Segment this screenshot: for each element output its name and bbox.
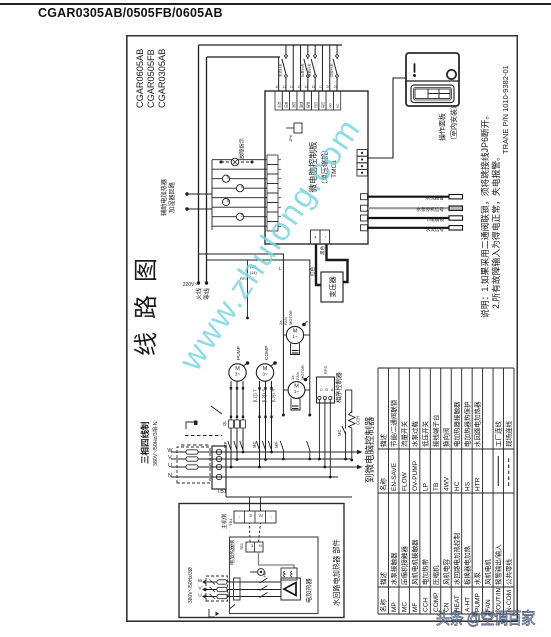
svg-text:4W: 4W — [329, 103, 333, 108]
svg-text:11: 11 — [290, 85, 294, 89]
svg-text:风机电机接触器: 风机电机接触器 — [410, 539, 419, 585]
svg-text:15: 15 — [304, 85, 308, 89]
svg-text:故障指示: 故障指示 — [238, 138, 246, 159]
svg-text:17: 17 — [319, 85, 323, 89]
svg-text:12: 12 — [282, 85, 286, 89]
svg-text:遥控: 遥控 — [291, 101, 296, 108]
svg-text:低压: 低压 — [313, 101, 318, 108]
svg-text:辅助电加热器: 辅助电加热器 — [160, 178, 168, 216]
svg-text:W: W — [198, 578, 203, 584]
svg-text:压缩机接触器: 压缩机接触器 — [400, 546, 409, 586]
svg-text:水回路电加热器 部件: 水回路电加热器 部件 — [332, 539, 341, 606]
svg-text:N: N — [168, 473, 172, 479]
svg-text:MF: MF — [412, 603, 419, 612]
svg-text:水流开关: 水流开关 — [278, 63, 283, 77]
svg-text:V: V — [198, 586, 202, 592]
svg-text:板换器电加热: 板换器电加热 — [462, 546, 471, 586]
svg-text:流量开关: 流量开关 — [400, 421, 409, 448]
svg-text:U: U — [198, 593, 202, 599]
svg-text:JP6: JP6 — [288, 134, 293, 142]
svg-text:-: - — [323, 236, 329, 238]
svg-text:20: 20 — [326, 85, 330, 89]
svg-text:压缩机: 压缩机 — [431, 565, 440, 585]
svg-text:220V~: 220V~ — [183, 282, 198, 288]
svg-text:QL: QL — [222, 420, 227, 426]
svg-text:（室内安装）: （室内安装） — [449, 102, 458, 144]
svg-text:380V~/50Hz/3相-N: 380V~/50Hz/3相-N — [151, 421, 159, 466]
svg-text:水泵过载: 水泵过载 — [410, 421, 419, 448]
svg-text:工厂连线: 工厂连线 — [494, 421, 503, 448]
svg-text:CCH: CCH — [356, 416, 361, 425]
svg-text:描述: 描述 — [379, 572, 388, 586]
svg-text:电加热器: 电加热器 — [305, 577, 313, 603]
svg-text:MC: MC — [402, 602, 409, 612]
svg-text:U: U — [168, 463, 172, 469]
svg-text:TB: TB — [433, 483, 440, 491]
svg-text:S: S — [240, 184, 243, 189]
svg-text:红色: 红色 — [309, 266, 315, 276]
svg-text:EN-SAVE: EN-SAVE — [391, 462, 398, 491]
svg-text:MOTOR: MOTOR — [300, 365, 305, 380]
svg-text:电加热器热保护: 电加热器热保护 — [462, 402, 471, 448]
svg-text:CCH: CCH — [422, 598, 429, 612]
svg-text:HC: HC — [454, 481, 461, 491]
svg-text:[L1]1 T: [L1]1 T — [253, 389, 258, 402]
svg-text:3: 3 — [249, 513, 252, 518]
svg-text:低压开关: 低压开关 — [420, 421, 429, 448]
svg-text:COMP: COMP — [264, 346, 270, 360]
svg-text:...: ... — [236, 515, 241, 518]
svg-text:380V~/50Hz/3Ø: 380V~/50Hz/3Ø — [188, 567, 194, 603]
svg-text:TRANE P/N 1010-9382-01: TRANE P/N 1010-9382-01 — [501, 65, 510, 154]
svg-text:三相四线制: 三相四线制 — [140, 421, 150, 464]
svg-text:操作面板: 操作面板 — [438, 113, 447, 141]
svg-text:PUMP: PUMP — [236, 346, 242, 360]
svg-text:接线端子台: 接线端子台 — [431, 415, 440, 448]
svg-text:MF: MF — [274, 442, 279, 448]
svg-text:CGAR0505FB: CGAR0505FB — [146, 49, 156, 108]
svg-text:HS: HS — [464, 481, 471, 491]
svg-text:21: 21 — [334, 85, 338, 89]
svg-text:TB2: TB2 — [227, 592, 231, 598]
svg-text:节能/二通阀联锁: 节能/二通阀联锁 — [389, 399, 398, 447]
svg-text:CGAR0305AB: CGAR0305AB — [157, 49, 167, 108]
svg-text:CGAR0605AB: CGAR0605AB — [135, 49, 145, 108]
svg-text:LP: LP — [422, 483, 429, 491]
svg-text:N: N — [259, 543, 262, 548]
svg-text:+: + — [313, 235, 319, 238]
svg-text:水流: 水流 — [276, 101, 281, 108]
svg-text:报警输出/输入: 报警输出/输入 — [494, 544, 503, 585]
svg-text:水回路电加热器: 水回路电加热器 — [473, 401, 482, 447]
svg-text:远程开关: 远程开关 — [329, 63, 334, 77]
svg-text:电加热器接触器: 电加热器接触器 — [452, 401, 461, 447]
svg-text:主机侧: 主机侧 — [221, 514, 228, 529]
svg-text:TB1: TB1 — [228, 518, 233, 526]
svg-text:加湿器回路: 加湿器回路 — [168, 181, 176, 213]
svg-text:压差: 压差 — [284, 102, 289, 108]
svg-text:MP: MP — [391, 602, 398, 612]
svg-text:水回路电加热控制: 水回路电加热控制 — [452, 533, 461, 586]
svg-text:水泵: 水泵 — [473, 572, 482, 586]
svg-text:水泵接触器: 水泵接触器 — [389, 552, 398, 585]
svg-text:2.所有故障输入为得电正常，失电报警。: 2.所有故障输入为得电正常，失电报警。 — [490, 152, 501, 309]
svg-text:S: S — [226, 198, 229, 203]
svg-text:水流信号: 水流信号 — [426, 226, 445, 233]
svg-text:L: L — [279, 266, 282, 271]
svg-text:MOTOR: MOTOR — [288, 310, 293, 325]
svg-text:联锁开关: 联锁开关 — [307, 63, 312, 77]
svg-text:3~: 3~ — [235, 372, 241, 377]
svg-text:S: S — [226, 175, 229, 180]
svg-text:换向阀: 换向阀 — [441, 428, 450, 448]
svg-text:火线: 火线 — [195, 288, 203, 300]
svg-text:描述: 描述 — [379, 434, 388, 448]
svg-text:联锁: 联锁 — [298, 101, 303, 108]
svg-text:S: S — [240, 213, 243, 218]
svg-text:相序控制器: 相序控制器 — [335, 371, 343, 403]
svg-text:MC: MC — [337, 429, 342, 436]
svg-text:公共零线: 公共零线 — [504, 559, 513, 586]
svg-text:水泵停机信号: 水泵停机信号 — [416, 206, 444, 213]
svg-text:1~: 1~ — [294, 389, 300, 394]
svg-text:现场连线: 现场连线 — [504, 421, 513, 448]
svg-text:16: 16 — [312, 85, 316, 89]
svg-text:10: 10 — [275, 85, 279, 89]
svg-text:A: A — [331, 388, 334, 392]
svg-text:节能联锁: 节能联锁 — [426, 216, 445, 223]
svg-text:变压器: 变压器 — [328, 277, 337, 298]
svg-text:线路图: 线路图 — [133, 245, 160, 356]
svg-text:名称: 名称 — [379, 478, 388, 492]
svg-text:报警: 报警 — [306, 101, 311, 108]
svg-text:4WV: 4WV — [443, 476, 450, 491]
svg-text:压差开关: 压差开关 — [299, 63, 304, 77]
svg-text:1~: 1~ — [292, 334, 298, 339]
svg-text:FLOW: FLOW — [402, 471, 409, 491]
svg-text:MC: MC — [252, 441, 257, 448]
svg-text:MP: MP — [223, 442, 228, 448]
svg-text:风机电容: 风机电容 — [441, 559, 450, 586]
svg-text:OV-PUMP: OV-PUMP — [412, 461, 419, 491]
svg-text:说明：1.如果采用二通阀联锁，须将跳接线JP6断开。: 说明：1.如果采用二通阀联锁，须将跳接线JP6断开。 — [479, 111, 490, 318]
svg-text:RFS: RFS — [323, 366, 328, 374]
svg-text:黑色: 黑色 — [319, 245, 326, 255]
svg-text:HTR: HTR — [475, 477, 482, 491]
svg-text:N: N — [259, 513, 262, 518]
svg-text:高压: 高压 — [320, 101, 325, 108]
svg-text:[L3]1 R: [L3]1 R — [271, 388, 276, 402]
svg-text:TB1: TB1 — [217, 489, 227, 495]
svg-text:V: V — [168, 455, 172, 461]
svg-text:13: 13 — [297, 85, 301, 89]
svg-text:TB3: TB3 — [240, 543, 244, 550]
svg-text:水流报警: 水流报警 — [426, 195, 445, 202]
svg-text:C: C — [320, 388, 323, 392]
svg-text:名称: 名称 — [379, 599, 388, 613]
svg-text:W: W — [167, 448, 173, 454]
svg-text:到微电脑控制器: 到微电脑控制器 — [364, 416, 376, 483]
svg-text:3: 3 — [251, 543, 254, 548]
svg-text:...: ... — [268, 515, 273, 518]
svg-text:电加热器侧: 电加热器侧 — [229, 540, 236, 565]
svg-text:[L2]1 S: [L2]1 S — [262, 389, 267, 402]
svg-text:电加热带: 电加热带 — [420, 559, 429, 586]
svg-text:3~: 3~ — [262, 372, 268, 377]
svg-text:风机电机: 风机电机 — [483, 559, 492, 586]
svg-text:B: B — [325, 388, 328, 392]
